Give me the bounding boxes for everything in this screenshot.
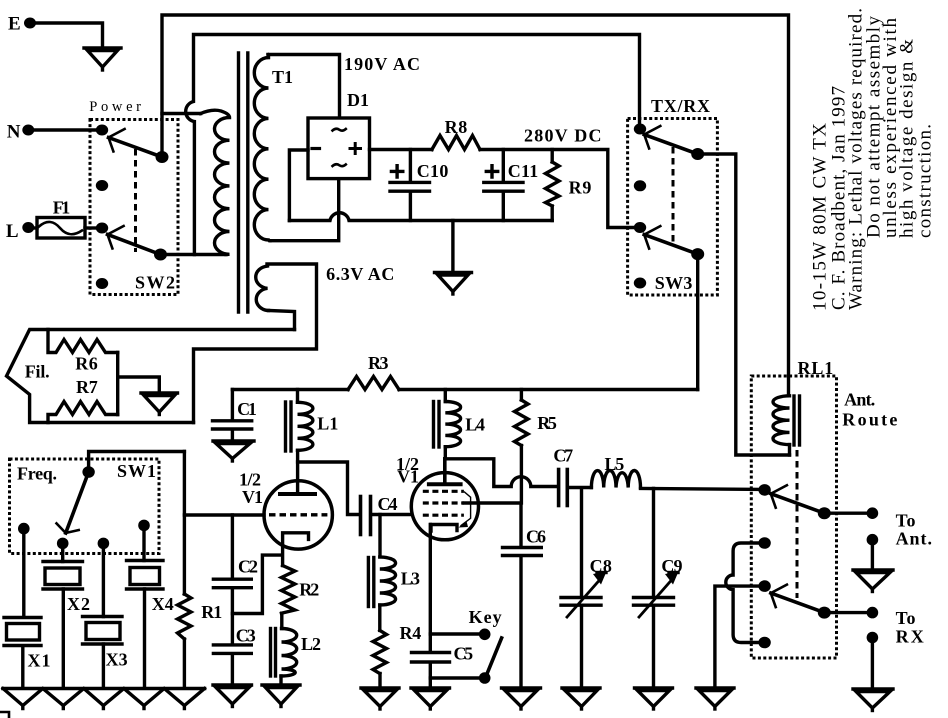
transformer T1 core <box>239 53 248 312</box>
svg-text:C6: C6 <box>526 527 546 547</box>
switch SW1 box <box>10 459 160 554</box>
svg-text:L2: L2 <box>301 634 321 654</box>
ground (C8) <box>562 688 600 709</box>
SW3 arm 1 <box>644 126 698 154</box>
switch SW3 box <box>628 96 718 295</box>
svg-text:R4: R4 <box>400 623 422 643</box>
wire SW3 pole2 to B+ bus <box>696 254 699 389</box>
svg-text:C4: C4 <box>378 494 398 514</box>
wire D1 plus to R8 <box>370 148 432 151</box>
capacitor C4 <box>361 494 412 535</box>
svg-text:C5: C5 <box>454 644 474 664</box>
ground (R4) <box>361 688 399 709</box>
tube V1b cathode <box>431 525 457 532</box>
wire SW3 pole1 to relay coil bottom <box>698 154 790 455</box>
wire C2-C3 junction to cathode <box>232 555 282 613</box>
inductor L3 <box>368 557 420 630</box>
wire filament tap to ground <box>118 377 160 393</box>
antenna ground terminal <box>853 534 893 592</box>
ground (E) <box>84 48 121 70</box>
svg-text:C10: C10 <box>417 161 449 181</box>
tube V1a cathode <box>283 533 309 566</box>
svg-text:C2: C2 <box>238 556 258 576</box>
wire L5 to relay contact <box>641 489 765 490</box>
crystal X1 <box>4 529 51 688</box>
capacitor C1 <box>213 390 257 441</box>
wire N to SW2 <box>28 128 97 131</box>
resistor R7 <box>48 377 118 423</box>
svg-text:C1: C1 <box>237 399 257 419</box>
SW2 pole dots <box>154 151 169 261</box>
ground (C1) <box>213 441 254 461</box>
relay RL1 coil <box>773 396 800 455</box>
ground (C5) <box>411 688 450 709</box>
inductor L1 <box>286 390 339 452</box>
ground (relay) <box>696 688 734 709</box>
bridge rectifier D1 <box>308 90 370 179</box>
wire E to ground <box>30 23 103 47</box>
ground bus sawtooth <box>3 689 205 709</box>
inductor L5 <box>591 454 640 488</box>
wire primary-top feed <box>162 112 201 115</box>
relay arm 2 <box>771 585 825 613</box>
wire 190V top lead <box>268 55 340 117</box>
wire B+ bus left <box>232 388 348 391</box>
relay pole dots <box>818 507 831 618</box>
wire moving contact to ground <box>715 586 765 688</box>
tube V1b anode <box>429 459 461 484</box>
svg-text:X3: X3 <box>106 650 128 670</box>
SW2 arm 2 <box>108 226 161 255</box>
wire 190V bottom lead <box>270 180 339 241</box>
SW3 link dashed <box>672 147 675 242</box>
svg-text:R7: R7 <box>76 377 98 397</box>
svg-text:Route: Route <box>842 409 897 429</box>
svg-text:T1: T1 <box>272 67 293 87</box>
node Fil. tag outline <box>7 330 295 423</box>
wire 6.3V top lead <box>194 264 317 423</box>
svg-text:R6: R6 <box>75 354 98 374</box>
ground (C3) <box>213 685 252 707</box>
wire D1 minus <box>289 150 308 221</box>
wire 34V bus with jog (primary bottom to SW3 top contact) <box>186 35 640 255</box>
svg-text:Key: Key <box>469 607 502 627</box>
capacitor C10 <box>390 150 448 221</box>
wire anode branch to C4 <box>298 462 359 515</box>
terminal To Ant <box>867 507 932 548</box>
resistor R5 <box>515 390 557 504</box>
svg-text:X4: X4 <box>152 594 174 614</box>
svg-text:V1: V1 <box>242 487 263 507</box>
svg-text:R5: R5 <box>537 413 557 433</box>
wire grid bus tube1 <box>184 513 264 516</box>
svg-text:C7: C7 <box>553 446 573 466</box>
wire C7 to L5 <box>569 486 592 489</box>
warning text block <box>810 8 936 311</box>
ground (C9) <box>635 688 673 709</box>
svg-text:C3: C3 <box>236 625 256 645</box>
svg-text:190V AC: 190V AC <box>344 54 420 74</box>
T1 secondary 190V winding <box>254 58 270 241</box>
relay arm 1 <box>771 485 825 513</box>
SW1 contact dots <box>18 520 150 550</box>
svg-text:To: To <box>896 608 916 628</box>
wire 6.3V bottom lead <box>269 311 295 330</box>
capacitor C9 variable <box>634 489 683 689</box>
tube V1a anode <box>280 450 315 494</box>
capacitor C11 <box>484 150 538 221</box>
SW2 arm 1 <box>109 129 163 157</box>
svg-text:F1: F1 <box>53 197 70 217</box>
relay contact dots <box>758 484 770 648</box>
resistor R4 <box>373 623 421 688</box>
terminal To RX <box>867 607 924 647</box>
svg-text:L1: L1 <box>317 414 338 434</box>
wire screen to C6 <box>464 503 521 546</box>
svg-text:R1: R1 <box>201 602 222 622</box>
resistor R3 <box>348 353 399 389</box>
inductor L4 <box>434 390 486 459</box>
SW3 pole dots <box>691 148 704 260</box>
svg-text:R9: R9 <box>569 178 592 198</box>
resistor R8 <box>432 117 480 150</box>
wire SW2 pole2 to primary bottom <box>161 253 227 256</box>
svg-text:X2: X2 <box>67 594 90 614</box>
svg-text:Ant.: Ant. <box>896 529 932 549</box>
fuse F1 <box>37 197 85 238</box>
switch SW2 <box>89 99 178 295</box>
wire B+ bus right <box>399 388 698 391</box>
svg-text:construction.: construction. <box>915 124 936 238</box>
wire SW1 pole to R1 bus <box>89 452 185 473</box>
svg-text:Fil.: Fil. <box>25 362 50 382</box>
svg-text:X1: X1 <box>28 651 51 671</box>
svg-text:C11: C11 <box>508 161 538 181</box>
wire L to fuse <box>28 226 37 229</box>
svg-text:280V DC: 280V DC <box>524 126 602 146</box>
relay link dashed <box>796 450 799 598</box>
svg-text:SW2: SW2 <box>135 273 175 293</box>
wire pole1 to antenna terminal <box>824 512 872 515</box>
svg-text:N: N <box>7 121 21 142</box>
tube V1a envelope <box>264 481 332 549</box>
crystal X4 <box>127 525 174 688</box>
svg-text:L: L <box>6 221 19 242</box>
SW2 contact dots <box>96 125 108 290</box>
wire anode branch with hump <box>445 459 557 487</box>
svg-text:SW3: SW3 <box>655 273 693 293</box>
tube V1b grids dashed <box>423 491 464 515</box>
ground (L2) <box>262 685 300 707</box>
capacitor C7 <box>553 446 573 506</box>
wire top bus 1 (N pole to relay coil) <box>162 15 789 395</box>
terminal N <box>7 121 35 142</box>
corner artifact <box>0 712 9 718</box>
capacitor C2 <box>213 515 258 644</box>
resistor R9 <box>546 150 592 221</box>
tube V1a label <box>239 470 263 508</box>
ground (filament) <box>141 393 178 415</box>
T1 6.3V winding <box>256 266 269 311</box>
inductor L2 <box>271 629 322 685</box>
resistor R2 <box>281 566 319 629</box>
svg-text:L3: L3 <box>401 569 420 589</box>
wire minus bus with hump <box>289 213 552 221</box>
capacitor C5 <box>412 644 474 689</box>
tube V1b envelope <box>411 473 478 540</box>
svg-text:To: To <box>896 510 916 530</box>
ground (C6) <box>502 688 541 709</box>
svg-text:V1: V1 <box>397 467 419 487</box>
svg-text:SW1: SW1 <box>117 461 156 481</box>
terminal L <box>6 221 34 242</box>
svg-text:Ant.: Ant. <box>844 389 875 409</box>
SW1 pole dot <box>82 466 94 478</box>
svg-text:L4: L4 <box>465 414 485 434</box>
resistor R6 <box>48 330 118 374</box>
svg-text:R3: R3 <box>368 353 389 373</box>
tube V1a grid <box>269 513 327 516</box>
relay contact strap with hump <box>726 543 765 643</box>
wire R6-R7 junction <box>116 353 119 415</box>
wire C4 to L3 <box>378 515 381 557</box>
wire fuse to SW2 <box>85 226 97 229</box>
resistor R1 <box>178 452 223 689</box>
ground (rectifier) <box>435 221 472 295</box>
RX ground terminal <box>853 632 893 711</box>
svg-text:R2: R2 <box>299 580 319 600</box>
SW3 contact dots <box>634 124 646 289</box>
SW1 arm <box>57 472 89 533</box>
tube V1b label <box>396 454 419 487</box>
SW2 link dashed <box>134 149 137 252</box>
capacitor C3 <box>213 625 255 684</box>
capacitor C6 <box>503 527 547 689</box>
svg-text:6.3V AC: 6.3V AC <box>326 264 394 284</box>
terminal E <box>8 14 36 35</box>
relay RL1 box <box>751 358 897 658</box>
SW3 arm 2 <box>644 226 698 254</box>
wire 280V bus <box>480 150 634 228</box>
key switch <box>430 607 501 684</box>
capacitor C8 variable <box>561 489 612 689</box>
wire pole2 to RX terminal <box>824 611 872 614</box>
tube V1b beam arrow <box>459 492 471 528</box>
crystal X3 <box>83 543 128 688</box>
svg-text:Freq.: Freq. <box>17 464 57 484</box>
svg-text:E: E <box>8 14 21 35</box>
wire cathode to key node <box>429 525 432 652</box>
crystal X2 <box>43 543 90 688</box>
svg-text:TX/RX: TX/RX <box>651 96 710 116</box>
T1 primary winding <box>201 110 230 254</box>
svg-text:D1: D1 <box>347 90 369 110</box>
